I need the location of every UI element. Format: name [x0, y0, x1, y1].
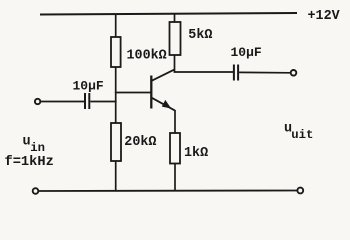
wire rail to resistor R3 [174, 13, 176, 23]
capacitor C1 left plate [84, 93, 86, 109]
svg-text:10µF: 10µF [231, 45, 262, 60]
resistor R3 5k body [170, 22, 181, 55]
svg-text:+12V: +12V [308, 9, 341, 24]
wire resistor R2 to bottom rail [115, 161, 117, 191]
wire resistor R1 to node B [115, 67, 117, 124]
wire resistor R4 to bottom rail [174, 164, 176, 192]
svg-text:uit: uit [291, 128, 313, 142]
svg-text:100kΩ: 100kΩ [127, 48, 167, 63]
transistor Q1 collector lead [152, 69, 175, 80]
svg-text:10µF: 10µF [73, 79, 104, 94]
wire rail to resistor R1 [115, 14, 117, 38]
wire emitter to resistor R4 [174, 110, 176, 134]
wire capacitor C1 to divider node [90, 101, 116, 103]
resistor R2 20k body [111, 123, 121, 161]
transistor Q1 emitter arrow [162, 100, 171, 109]
wire collector node to capacitor C2 [174, 71, 233, 73]
resistor R1 100k body [111, 37, 121, 67]
transistor Q1 base bar [150, 76, 152, 109]
wire top supply rail [40, 13, 297, 15]
capacitor C1 right plate [88, 93, 90, 109]
svg-text:5kΩ: 5kΩ [188, 28, 212, 43]
resistor R4 1k body [170, 133, 180, 164]
wire resistor R3 to collector node [174, 55, 176, 72]
terminal output bottom [297, 188, 303, 194]
wire base node to transistor [115, 92, 151, 94]
svg-text:f=1kHz: f=1kHz [5, 155, 54, 170]
wire bottom rail [39, 190, 298, 193]
terminal output top [291, 70, 297, 76]
svg-text:1kΩ: 1kΩ [184, 146, 208, 161]
svg-text:20kΩ: 20kΩ [124, 135, 156, 150]
wire capacitor C2 to output terminal [239, 71, 290, 73]
capacitor C2 right plate [237, 65, 239, 81]
svg-text:in: in [30, 141, 45, 155]
wire input to capacitor C1 [41, 101, 84, 103]
terminal input bottom [33, 188, 39, 194]
terminal input top [35, 99, 40, 104]
transistor Q1 emitter lead [152, 98, 175, 111]
capacitor C2 left plate [233, 65, 235, 81]
